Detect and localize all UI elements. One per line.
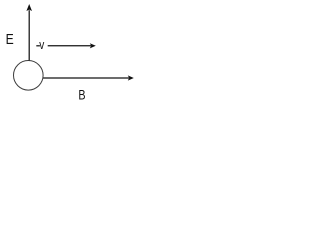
- E-field arrowhead: [26, 4, 32, 11]
- B-field arrowhead: [128, 75, 134, 80]
- wire: B-field arrow shaft: [43, 77, 129, 79]
- charged particle circle: [13, 61, 43, 91]
- svg-text:E: E: [6, 31, 14, 48]
- svg-text:v: v: [39, 39, 44, 52]
- wire: v arrow shaft left dash: [36, 45, 40, 47]
- v arrowhead: [90, 43, 96, 48]
- svg-text:B: B: [78, 87, 85, 103]
- background: [0, 0, 138, 118]
- wire: E-field arrow shaft: [28, 10, 30, 60]
- wire: v arrow shaft: [48, 45, 91, 47]
